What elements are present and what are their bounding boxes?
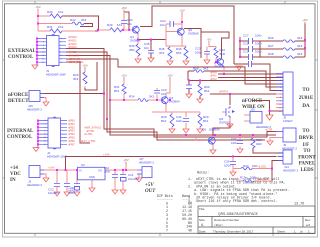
wire row C17 <box>240 40 305 42</box>
svg-text:of: of <box>300 230 303 234</box>
svg-text:13.7O: 13.7O <box>294 203 304 207</box>
regulator U2 <box>78 167 106 180</box>
svg-text:nEXT_CTRL: nEXT_CTRL <box>68 60 84 64</box>
wire R08 row to J5 pin5 <box>188 71 283 87</box>
wire C37 stems <box>239 135 241 149</box>
svg-text:nLED2: nLED2 <box>258 177 267 181</box>
svg-text:10n: 10n <box>144 46 149 50</box>
capacitor C24 <box>170 21 174 27</box>
junction dots J2 pins <box>37 120 39 122</box>
svg-text:nPATH: nPATH <box>219 90 228 94</box>
junction dot bundle J2 <box>106 118 108 120</box>
ground C13 <box>64 192 70 196</box>
wire nPATH row to J5 pin7 <box>210 93 283 95</box>
svg-text:R39: R39 <box>107 23 113 27</box>
wire R25 top <box>84 69 86 88</box>
capacitor C37 <box>237 141 243 144</box>
svg-text:R44: R44 <box>243 164 249 168</box>
svg-text:J15: J15 <box>250 108 255 112</box>
svg-text:3K3: 3K3 <box>159 51 165 55</box>
capacitor C35 <box>148 51 154 54</box>
capacitor C22 <box>186 85 192 89</box>
wire J15 pin stubs <box>244 115 250 121</box>
wire R42 row U-turn <box>80 24 93 27</box>
wire C22 R09 stems <box>189 80 200 99</box>
junction dots bias row <box>109 99 111 101</box>
ground R4a <box>167 61 173 65</box>
ground trio C41 <box>183 129 189 133</box>
wire mosfet drain riser <box>229 94 231 105</box>
resistor R4a vertical <box>168 47 172 59</box>
resistor R28 vertical <box>251 138 255 148</box>
wire R35 to ground <box>137 56 139 59</box>
svg-text:nFORCE: nFORCE <box>242 99 263 104</box>
svg-text:3K3: 3K3 <box>297 44 303 48</box>
svg-text:2N3904: 2N3904 <box>169 100 180 104</box>
wire R4a R4b bottoms to ground <box>170 59 186 61</box>
svg-text:HEADER 2: HEADER 2 <box>27 183 42 187</box>
svg-text:R40: R40 <box>47 10 53 14</box>
svg-text:12WAY: 12WAY <box>283 119 293 123</box>
capacitor C20 <box>154 91 160 94</box>
power +5V C34 <box>121 6 126 12</box>
ground C22 <box>186 94 192 98</box>
wire trio top rail <box>152 112 200 117</box>
svg-text:4D: 4D <box>188 228 192 232</box>
ground C11 <box>120 190 126 194</box>
svg-text:HEADER 2: HEADER 2 <box>282 147 297 151</box>
svg-text:OUT: OUT <box>145 189 156 194</box>
svg-text:7: 7 <box>166 228 168 232</box>
wire Q7 down to bus <box>223 68 225 75</box>
wire inner box Q7 cluster <box>201 32 229 58</box>
transistor Q1 <box>133 26 138 35</box>
power +5V Q6 <box>179 9 184 15</box>
wire R19 row <box>236 180 272 182</box>
svg-text:HEADER 3: HEADER 3 <box>283 169 298 173</box>
wire box bottom around amp cluster <box>118 59 283 84</box>
wire nEXT_CTRL loop <box>66 62 90 143</box>
transistor Q4 <box>162 96 166 105</box>
wire bus row r3 <box>188 79 283 81</box>
power +5V bias right <box>167 74 172 80</box>
capacitor C41 <box>183 119 189 122</box>
svg-text:Document Number: Document Number <box>214 218 239 222</box>
svg-text:10n: 10n <box>160 23 165 27</box>
svg-text:--------: -------- <box>157 198 173 202</box>
wire C34 branch <box>123 12 125 30</box>
power +5V R25 <box>82 64 87 70</box>
resistor R41 <box>50 29 62 33</box>
svg-text:Rev: Rev <box>305 218 311 222</box>
header J16 <box>29 91 40 102</box>
junction dot R39 <box>97 29 99 31</box>
resistor R38 <box>283 56 295 59</box>
junction dots top-left rail <box>37 15 39 17</box>
svg-text:HEADER 2: HEADER 2 <box>139 161 154 165</box>
svg-text:+5V: +5V <box>35 5 40 9</box>
notes text <box>188 172 304 207</box>
svg-text:nEXT_CTRL: nEXT_CTRL <box>80 139 96 143</box>
junction dots J1 pins <box>36 37 38 39</box>
resistor R4b vertical <box>184 47 188 59</box>
svg-text:C18: C18 <box>243 42 249 46</box>
svg-text:FRONT: FRONT <box>298 155 316 160</box>
ground C35 <box>148 58 154 62</box>
resistor R42 <box>72 22 84 25</box>
junction dot Q1 emitter <box>137 39 139 41</box>
svg-text:nPAD3: nPAD3 <box>68 45 77 49</box>
ground R35 <box>135 59 141 63</box>
svg-text:+5V: +5V <box>179 9 184 13</box>
svg-text:I/F: I/F <box>303 143 309 148</box>
junction dot C34 base <box>122 29 124 31</box>
ground below J2 <box>33 148 39 152</box>
junction dot C35 top <box>150 39 152 41</box>
svg-text:HEADER 2: HEADER 2 <box>27 108 42 112</box>
wire bus row r2 <box>218 76 283 78</box>
wire J14 pin2 rail <box>276 155 283 157</box>
svg-text:100n: 100n <box>176 119 183 123</box>
svg-text:5K6: 5K6 <box>176 51 182 55</box>
capacitor C13 <box>64 184 70 187</box>
svg-text:10u/25V: 10u/25V <box>48 191 59 195</box>
wire MOSFET gate <box>222 111 226 113</box>
svg-text:HEADER 16W: HEADER 16W <box>46 73 67 77</box>
capacitor C10 <box>112 175 118 178</box>
svg-text:3K3: 3K3 <box>203 67 209 71</box>
svg-text:+5V: +5V <box>302 18 307 22</box>
svg-text:U2: U2 <box>81 163 85 167</box>
ground J9 pin2 <box>267 141 273 145</box>
svg-text:8K2: 8K2 <box>161 119 167 123</box>
svg-text:1K2: 1K2 <box>58 25 64 29</box>
wire +5V out stem <box>125 164 127 171</box>
capacitor C23 <box>204 52 210 55</box>
power -5V Q7 <box>207 38 212 44</box>
junction dot nPATH mosfet <box>229 93 231 95</box>
junction dot Q7 base <box>215 61 217 63</box>
wire C35 stem <box>150 40 152 59</box>
svg-text:VO: VO <box>98 169 102 173</box>
svg-text:2N7000: 2N7000 <box>219 121 230 125</box>
ground below J16 <box>43 102 49 106</box>
mosfet Q8 <box>226 106 230 118</box>
svg-text:Notes:: Notes: <box>197 172 209 176</box>
svg-text:Size: Size <box>199 218 205 222</box>
wire Q4 emitter down <box>165 104 167 112</box>
wire C20 tap <box>156 88 158 100</box>
header J1 <box>47 36 60 66</box>
wire +14V rail <box>66 156 284 170</box>
svg-text:+14V: +14V <box>48 166 55 170</box>
svg-text:-5V: -5V <box>207 38 212 42</box>
svg-text:VDC: VDC <box>10 172 21 177</box>
wire R42 row <box>38 23 72 25</box>
ground C12 <box>54 192 60 196</box>
wire Q5 collector up <box>213 120 230 136</box>
svg-text:100n: 100n <box>104 170 111 174</box>
ground J15 <box>266 115 273 120</box>
svg-text:+5V: +5V <box>121 6 126 10</box>
capacitor C34 <box>121 21 127 24</box>
wire R44 row <box>233 168 272 170</box>
svg-text:100n: 100n <box>255 50 262 54</box>
svg-text:EXTERNAL: EXTERNAL <box>8 49 36 54</box>
svg-text:<Doc>: <Doc> <box>214 223 223 227</box>
ground C21 <box>236 66 242 70</box>
resistor R19 <box>243 180 254 183</box>
capacitor C18 <box>249 46 253 52</box>
wire top-left power rail <box>37 11 39 31</box>
ground C23 <box>204 60 210 64</box>
svg-text:CONTROL: CONTROL <box>7 135 33 140</box>
resistor R30 vertical <box>170 114 174 127</box>
svg-text:LEDS: LEDS <box>300 168 313 173</box>
resistor R29 vertical <box>198 114 202 127</box>
junction dot R44 riser <box>271 168 273 170</box>
ground U2 <box>89 188 95 192</box>
svg-text:+5V: +5V <box>123 158 128 162</box>
svg-text:3K3: 3K3 <box>297 52 303 56</box>
DIP bits / band table <box>157 194 192 232</box>
header J2 <box>48 118 61 148</box>
wire J9 pin2 gnd <box>270 138 283 142</box>
wire R40 row <box>38 15 50 17</box>
svg-text:1K2: 1K2 <box>117 23 123 27</box>
wire R39 row <box>98 29 133 31</box>
wire R41 row <box>38 30 95 32</box>
wire +5V bias right <box>166 79 170 96</box>
svg-text:3K3: 3K3 <box>73 77 79 81</box>
header J14 <box>283 150 292 164</box>
wire J5 pin stubs <box>276 94 283 108</box>
svg-text:100n: 100n <box>255 42 262 46</box>
wire J17 pin2 gnd <box>137 174 139 178</box>
ground mosfet <box>227 124 233 128</box>
svg-text:91R: 91R <box>256 142 262 146</box>
svg-text:nFORCE: nFORCE <box>8 93 29 98</box>
capacitor C21 <box>249 61 252 67</box>
svg-text:10n: 10n <box>161 92 166 96</box>
wire Q7 stems <box>209 44 218 63</box>
ground C9 <box>74 192 80 196</box>
svg-text:R36: R36 <box>268 36 274 40</box>
resistor R36 <box>283 40 295 43</box>
svg-text:VI: VI <box>79 169 82 173</box>
svg-text:nCTR: nCTR <box>265 128 272 132</box>
wire Q6 top <box>181 14 183 28</box>
svg-text:TO: TO <box>303 149 310 154</box>
wire MOSFET source down <box>229 116 231 124</box>
svg-text:2N3906: 2N3906 <box>188 32 199 36</box>
wire bus row C <box>95 30 110 31</box>
wire U2 out <box>105 169 137 171</box>
resistor R09 vertical <box>198 84 202 96</box>
wire Q6 base left <box>166 24 178 46</box>
svg-text:25R: 25R <box>129 48 135 52</box>
svg-text:PANEL: PANEL <box>299 162 316 167</box>
capacitor C9 <box>74 184 80 187</box>
wire C36 stems <box>232 156 234 172</box>
junction dot r3 C22 <box>188 79 190 81</box>
svg-text:DA: DA <box>302 104 310 109</box>
svg-text:2N3906: 2N3906 <box>130 39 141 43</box>
resistor R39 <box>110 28 122 32</box>
power +5V top-left <box>35 5 40 11</box>
header J9 <box>283 128 296 142</box>
svg-text:INTERNAL: INTERNAL <box>7 129 34 134</box>
wire J1 lower pin bundle going down <box>66 49 276 137</box>
svg-text:nPA2: nPA2 <box>210 77 217 81</box>
resistor R32 vertical <box>214 48 218 58</box>
svg-text:100n: 100n <box>231 141 238 145</box>
junction dot r3 R09 <box>199 79 201 81</box>
junction dot Q7 bus <box>223 73 225 75</box>
ground C10 <box>112 190 118 194</box>
svg-text:100n: 100n <box>68 191 75 195</box>
title block <box>198 206 315 234</box>
svg-text:nLED1: nLED1 <box>258 165 267 169</box>
resistor R31 vertical <box>122 84 126 94</box>
pin numbers J1 <box>42 38 282 146</box>
svg-text:TO: TO <box>302 88 309 93</box>
wire bias row <box>110 99 162 101</box>
svg-text:C19: C19 <box>243 50 249 54</box>
svg-text:GND: GND <box>89 175 95 179</box>
wire nFORCE DETECT to bundle <box>40 93 104 95</box>
svg-text:R34: R34 <box>129 95 135 99</box>
junction dots rail left <box>56 169 58 171</box>
svg-text:51R: 51R <box>220 52 226 56</box>
svg-text:3K3: 3K3 <box>81 18 87 22</box>
junction dots cap rows <box>239 40 241 42</box>
wire J3 out <box>40 169 78 171</box>
svg-text:DRVR: DRVR <box>299 136 314 141</box>
resistor R25 vertical <box>83 72 87 84</box>
resistor R08 <box>194 70 204 73</box>
junction dots rail right <box>232 155 234 157</box>
capacitor C19 <box>249 54 253 60</box>
svg-text:10u/25V: 10u/25V <box>128 177 139 181</box>
wire row C19 <box>240 56 305 58</box>
wire Q5 emitter <box>212 145 214 150</box>
section label EXTERNAL CONTROL <box>7 49 316 194</box>
svg-text:TO: TO <box>302 129 309 134</box>
wire R28 stem <box>252 135 254 138</box>
svg-text:C17: C17 <box>243 34 249 38</box>
svg-text:Date:: Date: <box>199 230 206 234</box>
ground R09 <box>197 99 203 103</box>
svg-text:DETECT: DETECT <box>8 99 29 104</box>
svg-text:R08: R08 <box>193 67 199 71</box>
wire caps right rail <box>259 41 261 57</box>
ground C37 <box>237 149 243 153</box>
wire C21 row to J5 pin6 <box>234 64 283 91</box>
svg-text:100n: 100n <box>255 34 262 38</box>
wire J14 pin3 riser <box>272 160 283 181</box>
svg-text:91R: 91R <box>250 176 256 180</box>
junction dot nFORCE bundle <box>103 93 105 95</box>
wire C10 C11 taps <box>115 170 123 190</box>
wire R31 stem <box>123 79 125 100</box>
wire box top Q1 collector to J5 row <box>140 6 234 64</box>
wire C17/C18/C19 left rail <box>239 37 241 57</box>
svg-text:IN: IN <box>10 178 16 183</box>
svg-text:100n: 100n <box>195 51 202 55</box>
svg-text:8K2: 8K2 <box>204 89 210 93</box>
junction dot Q1 base riser <box>128 29 130 31</box>
svg-text:4. Short J16 if only FPGA SDR: 4. Short J16 if only FPGA SDR det. contr… <box>188 199 278 204</box>
wire row C18 <box>240 48 305 50</box>
transistor Q6 <box>178 28 182 37</box>
capacitor C11 electrolytic <box>120 175 126 178</box>
wire U2 gnd <box>91 180 93 188</box>
resistor R40 <box>50 14 62 18</box>
wire J3 pin2 ground <box>40 174 46 178</box>
ground below J1 <box>32 65 38 69</box>
power +5V R31 <box>121 74 126 80</box>
transistor Q5 <box>209 137 213 146</box>
wire Q1 emitter junction right <box>138 39 166 41</box>
wire nFORCE to J5 pin12 <box>252 101 283 111</box>
svg-text:+14: +14 <box>10 166 18 171</box>
svg-text:+5V: +5V <box>167 74 172 78</box>
svg-text:+5V: +5V <box>145 183 154 188</box>
resistor R35 vertical <box>136 44 140 56</box>
wire bus row r1 <box>218 73 283 75</box>
wire J16 pin2 <box>40 98 46 103</box>
ground C36 <box>230 172 236 176</box>
junction dot Q6 <box>181 21 183 23</box>
svg-text:CONTROL: CONTROL <box>8 55 34 60</box>
header J17 <box>142 167 152 178</box>
transistor Q7 <box>218 58 225 68</box>
svg-text:Title: Title <box>199 207 205 211</box>
svg-text:Sheet: Sheet <box>277 230 285 234</box>
resistor R44 <box>241 167 252 170</box>
resistor R37 <box>283 48 295 51</box>
svg-text:R38: R38 <box>268 52 274 56</box>
ground trio R29 <box>197 129 203 133</box>
junction dot J15 <box>269 110 271 112</box>
wire R4a R4b tops <box>166 35 186 47</box>
capacitor C36 <box>230 162 236 165</box>
svg-text:R37: R37 <box>268 44 274 48</box>
svg-text:HEADER 16W: HEADER 16W <box>47 155 68 159</box>
ground R4b <box>183 61 189 65</box>
header J3 <box>29 166 40 178</box>
wire +5V right rail down <box>304 23 306 57</box>
wire C12 C13 C9 taps <box>57 170 77 192</box>
wire Q5 base <box>196 135 206 141</box>
svg-text:e/1: e/1 <box>306 223 311 227</box>
header J15 <box>250 112 262 124</box>
wire J15 junction <box>269 111 271 115</box>
junction dots mid wire <box>185 134 187 136</box>
svg-text:QRS-1556 PA INTERFACE: QRS-1556 PA INTERFACE <box>218 212 259 216</box>
header J5 <box>283 72 293 115</box>
svg-text:R42: R42 <box>70 18 76 22</box>
power +5V right rail <box>302 18 307 24</box>
ground Q5 <box>210 150 216 154</box>
svg-text:+14V: +14V <box>103 153 110 157</box>
svg-text:3K3: 3K3 <box>149 95 155 99</box>
wire +5V branch to base <box>124 12 129 30</box>
wire Q6 collector to bus row r1 <box>184 29 201 33</box>
svg-text:2N3904: 2N3904 <box>209 128 220 132</box>
svg-text:100n: 100n <box>224 164 231 168</box>
